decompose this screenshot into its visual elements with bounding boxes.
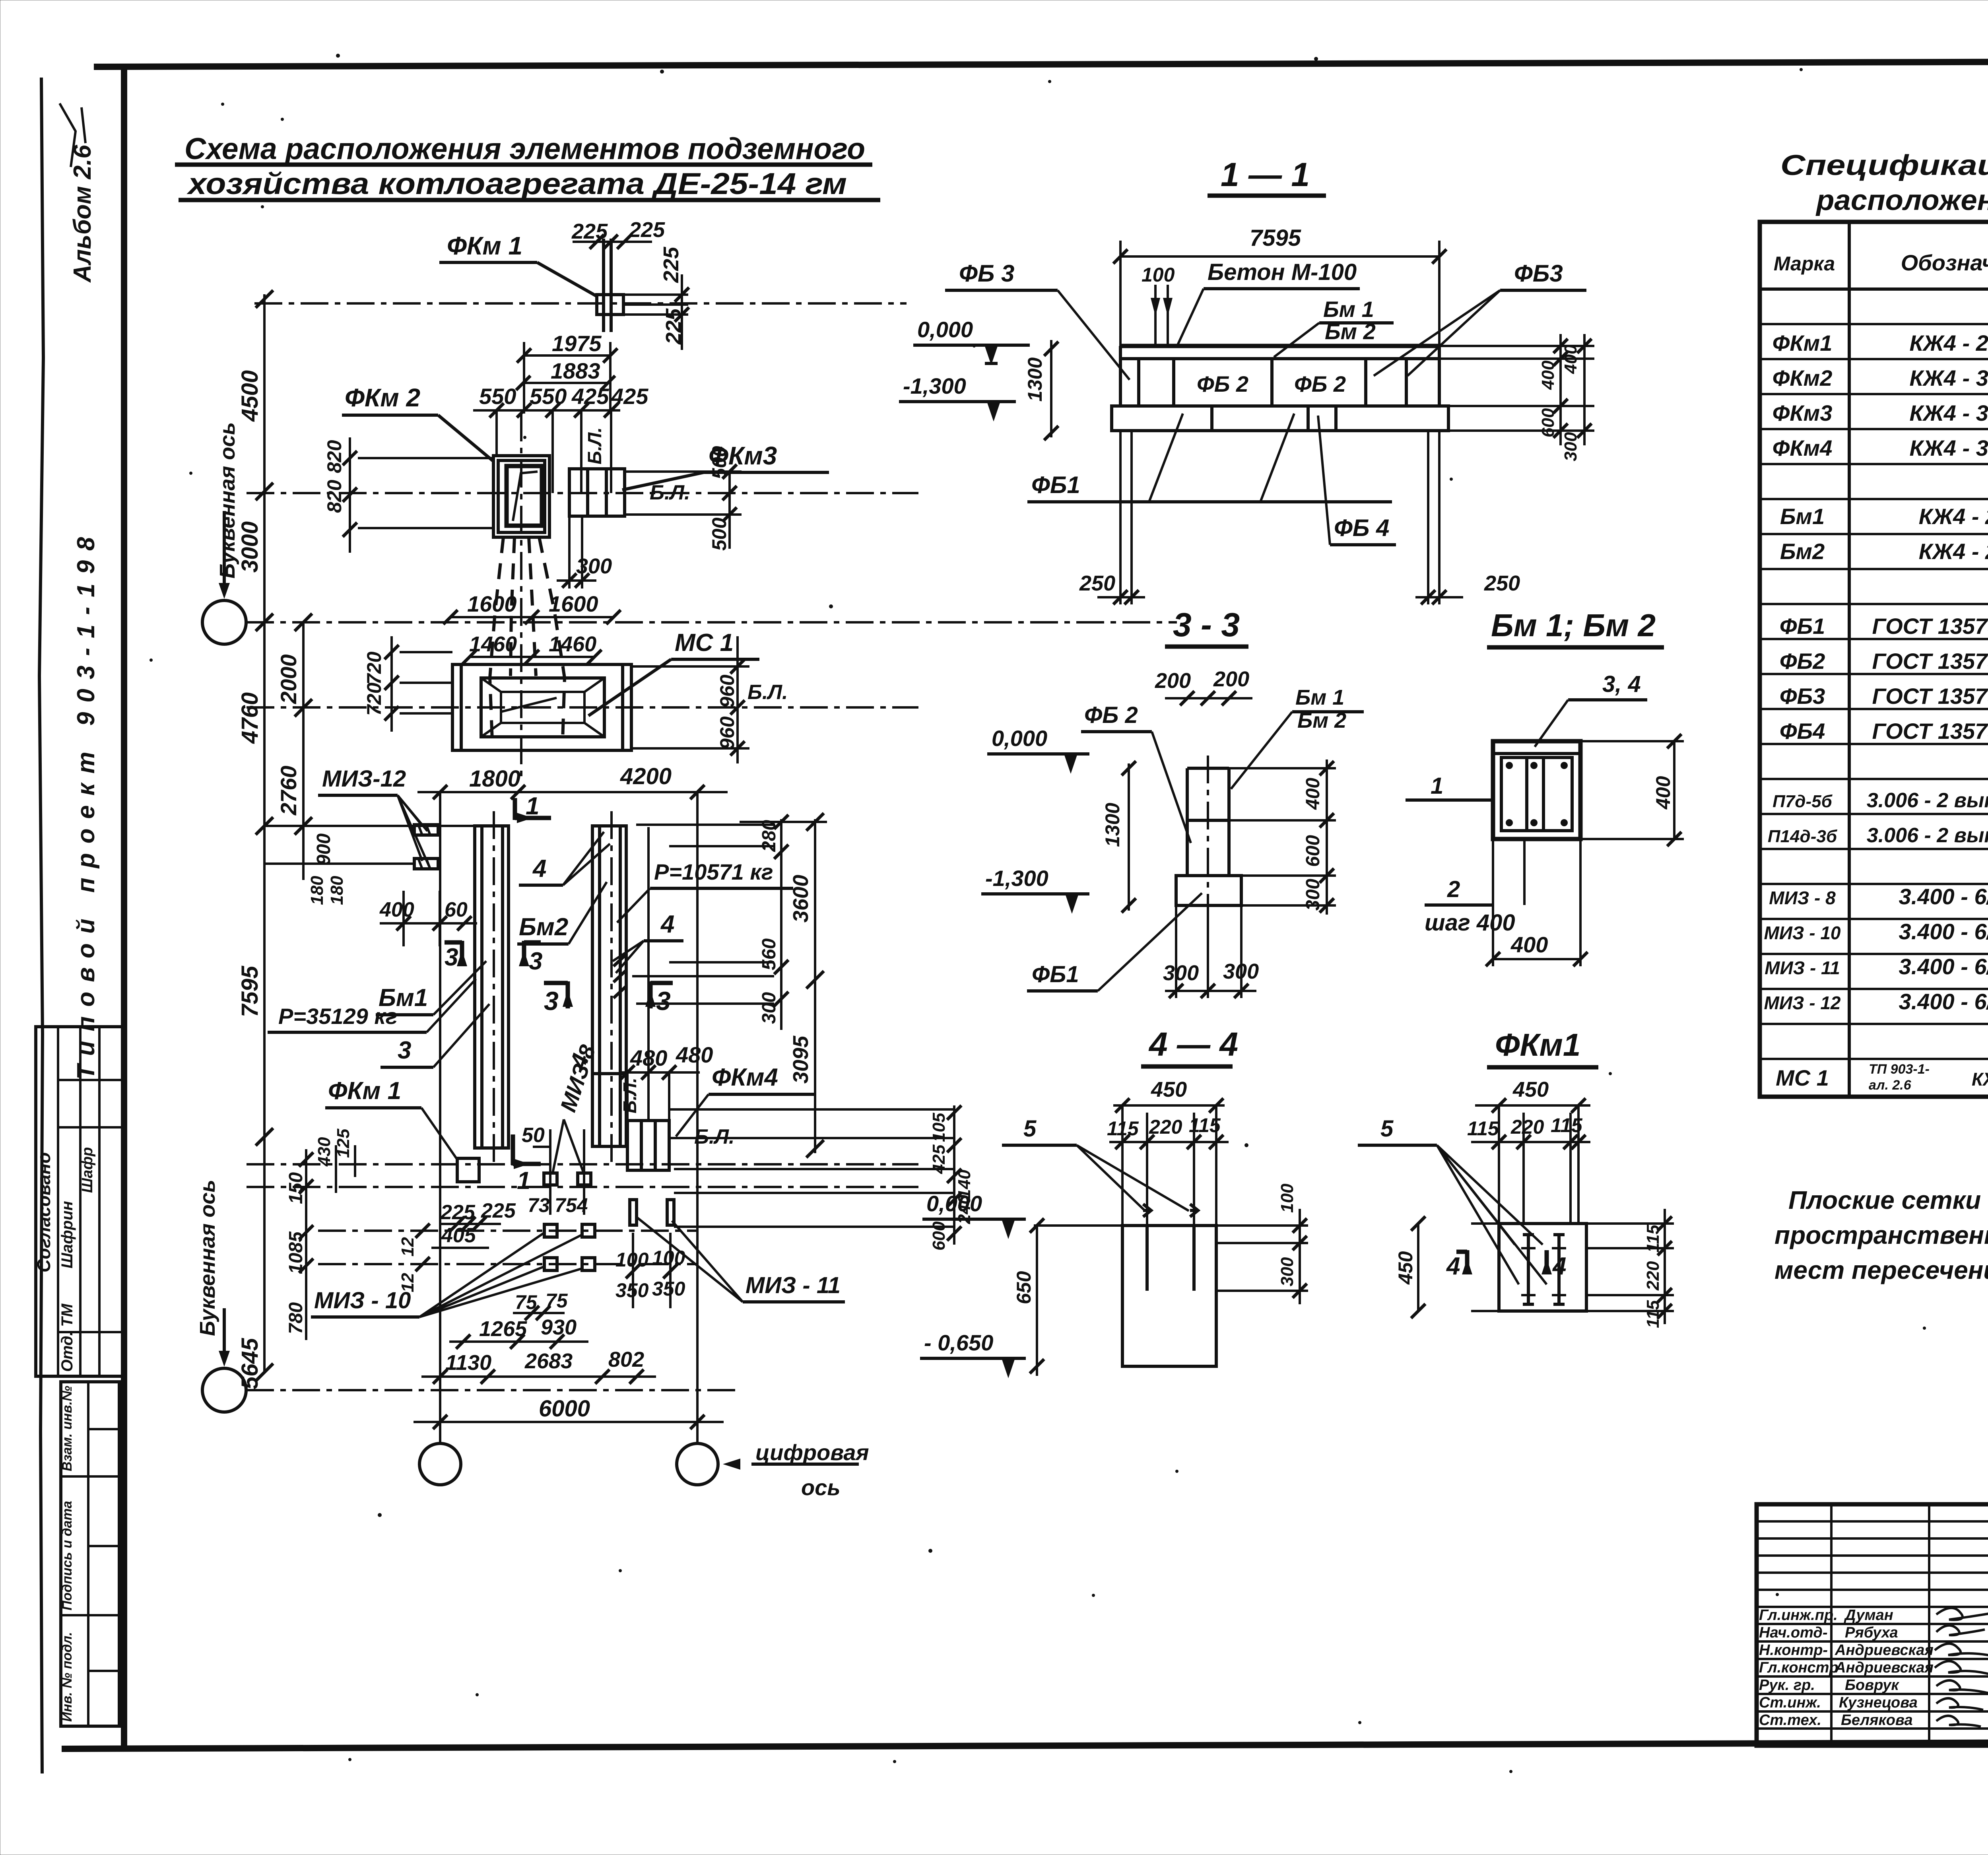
svg-text:820: 820 xyxy=(323,440,346,473)
svg-text:450: 450 xyxy=(1151,1078,1187,1101)
svg-text:180: 180 xyxy=(307,876,327,905)
svg-text:ГОСТ 13579 - 78: ГОСТ 13579 - 78 xyxy=(1872,719,1988,744)
MIZ-12 embedded plates xyxy=(264,825,475,869)
svg-text:480: 480 xyxy=(676,1042,713,1067)
title block signature texts xyxy=(1759,1607,1934,1729)
svg-text:930: 930 xyxy=(541,1315,577,1339)
svg-text:500: 500 xyxy=(708,446,730,479)
left margin bottom strip table xyxy=(60,1382,119,1726)
svg-text:Марка: Марка xyxy=(1774,253,1835,275)
svg-text:Бм 2: Бм 2 xyxy=(1297,709,1346,732)
canal dashed walls from FKm2 down xyxy=(490,537,565,740)
FKm3 label xyxy=(622,441,829,490)
svg-text:3.400 - 6/76: 3.400 - 6/76 xyxy=(1899,954,1988,979)
svg-text:4500: 4500 xyxy=(237,370,263,422)
svg-text:1883: 1883 xyxy=(551,358,600,383)
svg-text:250: 250 xyxy=(1079,571,1115,595)
svg-text:МИЗ-12: МИЗ-12 xyxy=(322,766,406,792)
section 3-3 dim 1300 xyxy=(1101,761,1136,913)
dim 400 right xyxy=(1580,734,1684,846)
specification table text xyxy=(1764,244,1988,1093)
svg-text:ФКм1: ФКм1 xyxy=(1495,1027,1580,1062)
svg-text:450: 450 xyxy=(1394,1251,1417,1285)
svg-text:-1,300: -1,300 xyxy=(985,866,1048,891)
svg-text:ал. 2.6: ал. 2.6 xyxy=(1869,1078,1912,1093)
svg-text:ФБ1: ФБ1 xyxy=(1780,614,1825,639)
FKm1 foundation block top xyxy=(597,239,688,332)
svg-text:1800: 1800 xyxy=(469,766,520,792)
svg-text:ФКм4: ФКм4 xyxy=(1773,435,1833,460)
MS1 label xyxy=(588,629,759,716)
section 4-4 body xyxy=(1034,1204,1216,1366)
svg-text:3 - 3: 3 - 3 xyxy=(1173,606,1240,643)
svg-text:200: 200 xyxy=(1213,667,1249,691)
svg-text:Бм2: Бм2 xyxy=(1780,539,1825,564)
section 1-1 body: footing row xyxy=(1112,406,1448,431)
section 4-4 level 0.000 xyxy=(922,1191,1026,1239)
svg-text:КЖ4 - 3,4: КЖ4 - 3,4 xyxy=(1909,435,1988,460)
svg-text:600: 600 xyxy=(1303,835,1324,867)
svg-text:1 — 1: 1 — 1 xyxy=(1221,156,1310,193)
svg-text:Спецификация элементов к: Спецификация элементов к схеме xyxy=(1780,150,1988,181)
svg-text:1: 1 xyxy=(517,1167,530,1195)
svg-text:Взам. инв.№: Взам. инв.№ xyxy=(60,1386,75,1471)
svg-text:МИЗ - 11: МИЗ - 11 xyxy=(745,1272,841,1298)
svg-text:802: 802 xyxy=(608,1348,644,1371)
svg-text:3.400 - 6/76: 3.400 - 6/76 xyxy=(1899,884,1988,909)
label P=35129 kg xyxy=(268,979,476,1032)
svg-text:Б.Л.: Б.Л. xyxy=(619,1078,640,1113)
svg-text:3.006 - 2 вып. II - 1: 3.006 - 2 вып. II - 1 xyxy=(1867,789,1988,812)
FKm1 label 5 xyxy=(1358,1116,1547,1284)
svg-text:МС 1: МС 1 xyxy=(1776,1065,1829,1090)
beam Bm1 plan xyxy=(475,811,509,1165)
small plates row with 50 dim xyxy=(522,1124,591,1215)
svg-text:550: 550 xyxy=(530,384,567,409)
svg-text:ФБ 2: ФБ 2 xyxy=(1084,702,1138,728)
svg-text:60: 60 xyxy=(445,898,468,921)
svg-text:3: 3 xyxy=(398,1037,411,1064)
svg-text:ФБ 4: ФБ 4 xyxy=(1334,515,1389,541)
svg-text:425: 425 xyxy=(571,384,609,409)
svg-text:7595: 7595 xyxy=(1250,225,1301,251)
svg-text:3000: 3000 xyxy=(237,521,263,573)
MS1 dims 720/720 xyxy=(363,636,452,732)
svg-text:Альбом 2.6: Альбом 2.6 xyxy=(69,145,96,283)
svg-text:12: 12 xyxy=(398,1273,417,1292)
svg-text:1130: 1130 xyxy=(445,1351,491,1375)
FKm1 foundation block bottom xyxy=(325,1077,479,1182)
svg-text:Бетон М-100: Бетон М-100 xyxy=(1208,259,1357,285)
dim 400/60 xyxy=(379,891,477,946)
svg-text:115: 115 xyxy=(1643,1300,1663,1328)
FKm2 label xyxy=(342,383,493,461)
svg-text:3: 3 xyxy=(445,944,458,971)
dim 300 under FKm3 xyxy=(557,516,612,589)
svg-text:цифровая: цифровая xyxy=(755,1440,869,1465)
svg-text:- 0,650: - 0,650 xyxy=(924,1330,993,1355)
svg-text:3: 3 xyxy=(544,986,559,1016)
note text xyxy=(1774,1186,1988,1284)
svg-text:4760: 4760 xyxy=(237,692,263,744)
svg-text:1: 1 xyxy=(526,793,539,820)
svg-text:ФКм2: ФКм2 xyxy=(1773,365,1833,390)
svg-text:Б.Л.: Б.Л. xyxy=(747,681,788,704)
svg-text:4: 4 xyxy=(660,911,674,938)
svg-text:720: 720 xyxy=(363,682,385,716)
section 4-4 right dims 100/300 xyxy=(1216,1183,1308,1304)
digit axis circle 2 xyxy=(677,1443,718,1485)
svg-text:3.006 - 2 вып. II - 1: 3.006 - 2 вып. II - 1 xyxy=(1867,824,1988,847)
svg-text:Подпись и дата: Подпись и дата xyxy=(60,1501,75,1610)
svg-text:ФКм 1: ФКм 1 xyxy=(328,1077,401,1105)
svg-text:-1,300: -1,300 xyxy=(903,373,966,398)
section 1-1 label FB3 right xyxy=(1374,260,1586,376)
dims 405 and 12 xyxy=(398,1224,489,1292)
specification table xyxy=(1760,222,1988,1097)
dim 1883 xyxy=(516,358,615,390)
svg-text:1600: 1600 xyxy=(467,591,517,616)
svg-text:450: 450 xyxy=(1512,1078,1549,1101)
section 1-1 dim 1300 left xyxy=(1024,340,1058,440)
svg-text:100: 100 xyxy=(652,1247,685,1269)
svg-text:1600: 1600 xyxy=(549,591,598,616)
svg-text:мест пересечения.: мест пересечения. xyxy=(1774,1256,1988,1284)
letter axis circle top xyxy=(202,600,246,644)
section 4-4 label 5 xyxy=(1002,1116,1189,1211)
label Bm2 xyxy=(517,882,607,944)
svg-text:МИЗ - 8: МИЗ - 8 xyxy=(1769,888,1836,908)
svg-text:1: 1 xyxy=(1431,773,1443,799)
svg-text:Обозначение: Обозначение xyxy=(1901,250,1988,275)
svg-text:ФБ1: ФБ1 xyxy=(1031,472,1080,498)
section 1-1 right dim chains xyxy=(1439,334,1594,461)
FKm1 dim 450 left xyxy=(1394,1216,1425,1318)
svg-text:4: 4 xyxy=(1552,1253,1566,1280)
svg-text:300: 300 xyxy=(759,992,780,1024)
MIZ-10 label xyxy=(311,1233,582,1317)
svg-text:400: 400 xyxy=(1303,778,1324,810)
digit axis circle 1 xyxy=(419,1443,461,1485)
svg-text:Инв. № подл.: Инв. № подл. xyxy=(60,1632,75,1722)
section 1-1 label Beton M-100 xyxy=(1178,259,1360,345)
letter axis label top xyxy=(215,422,239,599)
B.L. axis through MS1 xyxy=(247,706,918,709)
svg-text:КЖ4 - 3,4: КЖ4 - 3,4 xyxy=(1909,400,1988,425)
section 1-1 labels Bm1 Bm2 xyxy=(1274,297,1394,357)
svg-text:Ст.тех.: Ст.тех. xyxy=(1759,1712,1821,1729)
svg-text:100: 100 xyxy=(1277,1183,1297,1213)
svg-text:960: 960 xyxy=(716,716,738,750)
right inner chain 280/560/300 xyxy=(632,815,827,1030)
svg-text:400: 400 xyxy=(1652,776,1674,810)
svg-text:Бм1: Бм1 xyxy=(1780,504,1825,529)
svg-text:400: 400 xyxy=(1510,932,1548,957)
svg-text:ФБ 2: ФБ 2 xyxy=(1294,371,1346,396)
svg-text:ФБ 2: ФБ 2 xyxy=(1197,371,1248,396)
svg-text:расположения на данном ли: расположения на данном листе xyxy=(1815,185,1988,216)
svg-text:2: 2 xyxy=(1447,876,1460,902)
svg-text:МС 1: МС 1 xyxy=(675,629,734,657)
svg-text:220: 220 xyxy=(1643,1261,1663,1291)
svg-text:900: 900 xyxy=(313,833,334,865)
svg-text:ФБ2: ФБ2 xyxy=(1780,649,1825,674)
top axis line xyxy=(254,302,907,305)
svg-text:550: 550 xyxy=(479,384,516,409)
dims 73/754 xyxy=(528,1194,588,1216)
MIZ-8 rotated label xyxy=(553,1041,600,1173)
svg-text:Бм 1: Бм 1 xyxy=(1295,686,1344,709)
svg-text:Гл.инж.пр.: Гл.инж.пр. xyxy=(1759,1607,1838,1624)
frame top border xyxy=(94,60,1988,67)
svg-text:650: 650 xyxy=(1013,1271,1035,1304)
section 4-4 dim 450 xyxy=(1113,1078,1225,1113)
dims 100/100 350/350 xyxy=(615,1233,685,1308)
svg-text:3: 3 xyxy=(529,948,542,975)
svg-text:Буквенная ось: Буквенная ось xyxy=(196,1180,219,1336)
label 4 top xyxy=(519,832,610,885)
svg-text:225: 225 xyxy=(571,219,608,243)
svg-text:560: 560 xyxy=(759,938,780,970)
svg-text:220: 220 xyxy=(1510,1116,1544,1138)
svg-text:пространственные каркасы пут: пространственные каркасы путем перевязки… xyxy=(1774,1221,1988,1249)
svg-text:430: 430 xyxy=(315,1137,334,1167)
svg-text:2000: 2000 xyxy=(276,654,301,704)
svg-text:5645: 5645 xyxy=(237,1338,263,1389)
svg-text:Андриевская: Андриевская xyxy=(1835,1659,1934,1676)
title block xyxy=(1757,1504,1988,1746)
section mark 1 top xyxy=(515,793,551,823)
beam Bm2 plan xyxy=(592,811,626,1165)
FKm3 dims 500/500 xyxy=(625,446,742,551)
dims 1265/930 xyxy=(449,1315,588,1349)
svg-text:ФКм3: ФКм3 xyxy=(1773,400,1833,425)
dim 1460/1460 xyxy=(462,632,602,664)
canal center line vertical xyxy=(520,414,522,779)
svg-text:КЖ4 - 2: КЖ4 - 2 xyxy=(1919,539,1988,564)
section 3-3 level -1.300 xyxy=(981,866,1089,914)
svg-text:МИЗ - 10: МИЗ - 10 xyxy=(1764,923,1840,943)
axis B.L. line xyxy=(247,492,918,494)
svg-text:6000: 6000 xyxy=(539,1396,590,1422)
svg-text:5: 5 xyxy=(1380,1116,1394,1142)
letter axis line xyxy=(246,621,1177,624)
svg-text:Шафрин: Шафрин xyxy=(58,1201,76,1268)
svg-text:Белякова: Белякова xyxy=(1841,1712,1913,1729)
bottom letter axis line xyxy=(246,1389,740,1391)
svg-text:ФБ 3: ФБ 3 xyxy=(959,260,1014,287)
letter axis label bottom xyxy=(196,1180,230,1367)
svg-text:780: 780 xyxy=(285,1302,307,1334)
svg-text:2683: 2683 xyxy=(524,1349,573,1373)
svg-text:4: 4 xyxy=(532,855,546,882)
section 3-3 dims 300/300 xyxy=(1163,905,1259,998)
label P=10571 kg xyxy=(617,859,793,923)
section 3-3 column xyxy=(1187,756,1229,923)
inner left dimension chain xyxy=(276,614,347,905)
svg-text:Типовой проект 903-1-198: Типовой проект 903-1-198 xyxy=(72,527,100,1080)
svg-text:Согласовано: Согласовано xyxy=(33,1152,54,1272)
svg-text:225: 225 xyxy=(629,218,665,242)
section 3-3 labels Bm1/Bm2 xyxy=(1231,686,1364,789)
section 4-4 level -0.650 xyxy=(920,1330,1026,1378)
label 4 right xyxy=(613,911,683,973)
MS1 dims 960/960 xyxy=(631,636,749,763)
bottom B.L. axes xyxy=(247,1163,918,1165)
svg-text:600: 600 xyxy=(1538,408,1558,437)
svg-text:ФКм4: ФКм4 xyxy=(712,1064,778,1091)
FKm1 dims 225 xyxy=(571,218,689,350)
svg-text:820: 820 xyxy=(323,480,346,513)
svg-text:1460: 1460 xyxy=(549,632,596,656)
svg-text:4 — 4: 4 — 4 xyxy=(1148,1026,1238,1063)
svg-text:Думан: Думан xyxy=(1844,1607,1893,1624)
section 1-1 dim 100 xyxy=(1142,264,1175,345)
svg-text:ГОСТ 13579 - 78: ГОСТ 13579 - 78 xyxy=(1872,649,1988,674)
svg-text:3.400 - 6/76: 3.400 - 6/76 xyxy=(1899,919,1988,944)
svg-text:4: 4 xyxy=(1446,1253,1460,1280)
section 1-1 title xyxy=(1208,156,1326,196)
section 1-1 level 0.000 xyxy=(913,317,1030,365)
FKm4 foundation block xyxy=(619,1064,815,1170)
svg-text:ТП 903-1-: ТП 903-1- xyxy=(1869,1062,1930,1077)
svg-text:Р=35129 кг: Р=35129 кг xyxy=(278,1004,398,1029)
svg-text:500: 500 xyxy=(708,517,730,551)
svg-text:400: 400 xyxy=(1538,360,1558,390)
svg-text:КЖ4 - 3,4: КЖ4 - 3,4 xyxy=(1909,365,1988,390)
FKm2 dims 820/820 xyxy=(323,437,493,553)
scan crease marks top-left xyxy=(60,103,85,167)
svg-text:1975: 1975 xyxy=(552,331,602,356)
svg-text:Кузнецова: Кузнецова xyxy=(1839,1694,1918,1711)
MIZ-10 anchor squares xyxy=(318,1224,697,1270)
FKm1 label top xyxy=(439,231,597,296)
dim 6000 xyxy=(414,1396,724,1429)
section marks 3 lower pair xyxy=(544,981,673,1016)
FKm1 dims 115/220/115 xyxy=(1467,1105,1590,1224)
FKm1 section marks 4 xyxy=(1446,1250,1566,1280)
svg-text:ось: ось xyxy=(801,1475,841,1500)
small rotated dims 430/125 xyxy=(315,1129,355,1193)
section 3-3 label FB1 xyxy=(1027,893,1202,991)
dim 480/480 xyxy=(620,827,713,1121)
svg-text:0,000: 0,000 xyxy=(917,317,973,342)
svg-text:ФБ4: ФБ4 xyxy=(1780,719,1825,744)
svg-text:150: 150 xyxy=(285,1172,307,1204)
svg-text:180: 180 xyxy=(327,876,347,905)
section 4-4 dim 650 xyxy=(1013,1218,1044,1376)
svg-text:960: 960 xyxy=(716,674,738,708)
section 3-3 level 0.000 xyxy=(987,726,1089,774)
section 3-3 label FB2 xyxy=(1081,702,1191,843)
svg-text:хозяйства котлоагрегата ДЕ-25: хозяйства котлоагрегата ДЕ-25-14 гм xyxy=(186,167,847,201)
svg-text:300: 300 xyxy=(1277,1257,1297,1286)
dim 1600/1600 xyxy=(443,591,621,624)
svg-text:Андриевская: Андриевская xyxy=(1835,1642,1934,1659)
dim 400 bottom xyxy=(1486,839,1588,966)
svg-text:ГОСТ 13579 - 78: ГОСТ 13579 - 78 xyxy=(1872,684,1988,709)
stamp table soglasovano xyxy=(33,1027,122,1376)
svg-text:ФБ1: ФБ1 xyxy=(1032,961,1079,987)
letter axis circle bottom xyxy=(202,1368,246,1412)
svg-text:1300: 1300 xyxy=(1024,357,1046,402)
svg-text:Бм2: Бм2 xyxy=(519,913,568,941)
svg-text:3, 4: 3, 4 xyxy=(1602,671,1641,697)
svg-text:Боврук: Боврук xyxy=(1845,1677,1899,1694)
svg-text:Нач.отд-: Нач.отд- xyxy=(1759,1624,1827,1641)
svg-text:КЖ4 - 2: КЖ4 - 2 xyxy=(1919,504,1988,529)
svg-text:250: 250 xyxy=(1484,571,1520,595)
svg-text:Плоские сетки и каркасы об: Плоские сетки и каркасы объединяются в xyxy=(1788,1186,1988,1214)
label 3 leader xyxy=(381,1004,489,1067)
svg-text:225: 225 xyxy=(662,308,685,345)
FKm1 dim 450 xyxy=(1475,1078,1590,1113)
beam cross box xyxy=(1493,741,1580,839)
svg-text:Буквенная ось: Буквенная ось xyxy=(215,422,239,579)
svg-text:Ст.инж.: Ст.инж. xyxy=(1759,1694,1821,1711)
svg-text:Бм 1: Бм 1 xyxy=(1323,297,1374,322)
svg-text:Схема расположения элементов п: Схема расположения элементов подземного xyxy=(184,132,865,166)
section 1-1 label FB1 xyxy=(1027,414,1392,502)
svg-text:1460: 1460 xyxy=(469,632,517,656)
svg-text:Шафр: Шафр xyxy=(79,1147,96,1193)
section 4-4 dims 115/220/115 xyxy=(1107,1105,1229,1226)
svg-text:КЖ4 - 2,4: КЖ4 - 2,4 xyxy=(1909,330,1988,355)
svg-text:ГОСТ 13579 - 78: ГОСТ 13579 - 78 xyxy=(1872,614,1988,639)
svg-text:300: 300 xyxy=(1163,961,1199,985)
section 1-1 dim 7595 xyxy=(1113,225,1446,349)
svg-text:1085: 1085 xyxy=(285,1231,307,1274)
right dim chain 3600/3095 xyxy=(789,813,824,1158)
svg-text:0,000: 0,000 xyxy=(926,1191,982,1216)
svg-text:5: 5 xyxy=(1023,1116,1037,1142)
svg-text:П14д-3б: П14д-3б xyxy=(1768,827,1838,846)
svg-text:50: 50 xyxy=(522,1124,545,1147)
svg-text:МИЗ - 10: МИЗ - 10 xyxy=(314,1288,411,1313)
main left dimension chain xyxy=(237,290,273,1389)
sheet outer edge left xyxy=(39,78,43,1773)
svg-text:7595: 7595 xyxy=(237,965,263,1017)
right bottom rotated dims cluster xyxy=(669,1105,974,1251)
FKm3 foundation block xyxy=(569,469,625,516)
section 1-1 dims 250 xyxy=(1079,431,1520,604)
svg-text:350: 350 xyxy=(652,1278,685,1300)
svg-text:ФКм1: ФКм1 xyxy=(1773,330,1833,355)
left small chain 150/1085/780 xyxy=(285,1149,313,1340)
svg-text:754: 754 xyxy=(555,1194,588,1216)
svg-text:73: 73 xyxy=(528,1194,550,1216)
svg-text:Гл.констр: Гл.констр xyxy=(1759,1659,1839,1676)
label 3,4 xyxy=(1535,671,1647,747)
svg-text:МИЗ - 12: МИЗ - 12 xyxy=(1764,993,1840,1013)
MIZ-11 slots xyxy=(630,1200,845,1302)
svg-text:Отд. ТМ: Отд. ТМ xyxy=(58,1303,76,1372)
svg-text:МИЗ - 11: МИЗ - 11 xyxy=(1765,958,1840,978)
section 3-3 footing xyxy=(1176,876,1241,905)
dims 550 550 425 425 xyxy=(473,384,648,493)
svg-text:720: 720 xyxy=(363,651,385,685)
label 2 shag 400 xyxy=(1425,839,1524,936)
svg-text:Б.Л.: Б.Л. xyxy=(584,427,606,464)
svg-text:ФБ3: ФБ3 xyxy=(1514,260,1563,287)
dims 75/75 xyxy=(513,1290,568,1320)
svg-text:ФКм 2: ФКм 2 xyxy=(345,383,420,412)
section 1-1 label FB4 xyxy=(1318,416,1396,545)
svg-text:4200: 4200 xyxy=(620,763,672,789)
svg-text:2760: 2760 xyxy=(276,765,301,816)
svg-text:Бм 2: Бм 2 xyxy=(1325,319,1376,344)
section 1-1 body: top slab xyxy=(1120,346,1439,406)
